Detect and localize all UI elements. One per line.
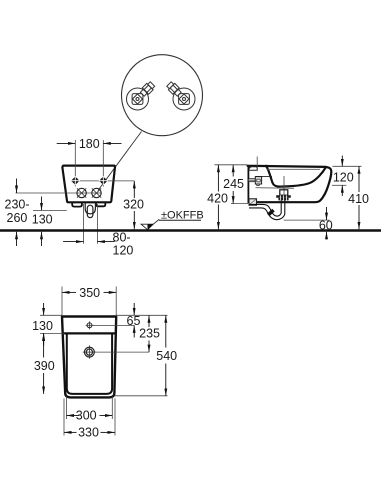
- svg-text:120: 120: [333, 171, 354, 185]
- svg-text:300: 300: [76, 409, 97, 423]
- svg-text:235: 235: [139, 327, 160, 341]
- svg-text:180: 180: [79, 137, 100, 151]
- svg-text:320: 320: [123, 198, 144, 212]
- svg-text:420: 420: [207, 191, 228, 205]
- svg-text:120: 120: [113, 244, 134, 258]
- svg-text:60: 60: [319, 219, 333, 233]
- svg-text:130: 130: [32, 212, 53, 226]
- svg-text:230-: 230-: [5, 198, 30, 212]
- svg-text:390: 390: [34, 359, 55, 373]
- svg-text:350: 350: [79, 286, 100, 300]
- svg-text:330: 330: [78, 426, 99, 440]
- svg-text:260: 260: [7, 211, 28, 225]
- svg-text:80-: 80-: [113, 230, 131, 244]
- svg-text:540: 540: [156, 349, 177, 363]
- svg-text:245: 245: [223, 177, 244, 191]
- svg-text:130: 130: [32, 319, 53, 333]
- svg-text:410: 410: [348, 192, 369, 206]
